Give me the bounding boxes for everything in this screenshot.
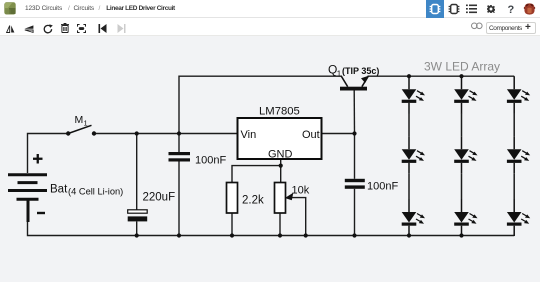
gear icon [487,5,495,13]
wire LED col1 D1-D2 [408,113,410,136]
svg-text:100nF: 100nF [195,155,226,167]
junction LED col2 bottom [459,233,463,237]
svg-text:2.2k: 2.2k [242,195,264,207]
svg-text:GND: GND [268,149,293,161]
junction LED col2 top [459,74,463,78]
svg-text:Out: Out [302,129,320,141]
resistor R1 2.2k [227,183,238,214]
LED D2 (col1 row2) [402,136,425,173]
123D logo [4,2,16,15]
wire pot wiper [288,198,306,236]
transistor Q1 [340,76,369,91]
LED D5 (col2 row2) [454,136,477,173]
svg-text:LM7805: LM7805 [259,106,300,118]
header bar [0,0,540,18]
junction C3 bottom [352,233,356,237]
switch M1 [66,125,96,135]
junction LED col1 bottom [407,233,411,237]
battery Bat [8,175,47,222]
schematic view button (blue) [426,0,444,18]
potentiometer R2 label [292,185,310,197]
wire LED col2 D5-D6 [461,173,463,199]
wire LED col3 D7-D8 [513,113,515,136]
components button [486,22,536,34]
regulator U1 LM7805 [238,118,322,159]
svg-text:(TIP 35c): (TIP 35c) [342,66,379,76]
svg-text:10k: 10k [292,185,310,197]
battery value label [50,184,123,197]
wire Q1 base [353,91,355,134]
wire LED col2 D4-D5 [461,113,463,136]
junction LED col1 top [407,74,411,78]
play icon (disabled) [117,24,126,33]
separator [111,39,112,52]
svg-text:220uF: 220uF [143,192,176,204]
separator [129,39,130,52]
switch M1 label [75,114,88,128]
components list view icon [448,3,460,15]
share icon [471,22,483,30]
junction C1 top [135,131,139,135]
svg-text:3W LED Array: 3W LED Array [424,60,500,74]
wire 100nF C2 branch [178,134,180,236]
svg-text:(4 Cell Li-ion): (4 Cell Li-ion) [68,187,123,197]
svg-text:Bat: Bat [50,184,68,196]
battery plus label [33,154,43,164]
battery minus label [37,212,45,214]
bom list icon [466,4,477,14]
junction C2 top [177,131,181,135]
svg-text:Vin: Vin [241,129,257,141]
wire 220uF branch [136,134,138,236]
regulator title label [259,106,300,118]
trash icon [61,23,69,33]
wire 100nF C3 branch [354,134,356,236]
wire rail switch to regulator [94,133,238,135]
wire 2.2k bottom [231,213,233,236]
svg-text:?: ? [508,4,515,16]
breadcrumb [25,5,62,12]
wire top rail riser [179,76,342,133]
LED D3 (col1 row3) [402,199,425,236]
pin label GND [268,149,293,161]
wire LED col3 D8-D9 [513,173,515,199]
capacitor 220uF label [143,192,176,204]
junction C2 bottom [177,233,181,237]
LED D9 (col3 row3) [507,199,530,236]
wire GND network [232,159,281,183]
capacitor 220uF (polarized) [128,210,148,222]
wire bottom rail [28,222,515,236]
pin label Out [302,129,320,141]
potentiometer wiper arrow [285,193,294,201]
resistor R1 label [242,195,264,207]
junction R1 bottom [230,233,234,237]
LED D8 (col3 row2) [507,136,530,173]
wire top rail right to LEDs [368,75,515,77]
123D app logo (red) [523,3,536,15]
LED array title label [424,60,500,74]
wire 10k bottom [279,213,281,236]
skip to start icon [98,24,107,33]
svg-text:M: M [75,114,84,126]
LED D6 (col2 row3) [454,199,477,236]
zoom to fit icon [77,24,86,33]
capacitor C2 label [195,155,226,167]
wire regulator out to Q1 base node [322,133,355,135]
separator [90,39,91,52]
transistor Q1 label [328,63,379,79]
wire LED col1 D2-D3 [408,173,410,199]
wire battery top lead [28,134,69,174]
svg-text:100nF: 100nF [367,181,398,193]
junction C1 bottom [135,233,139,237]
potentiometer R2 10k [275,183,286,214]
capacitor C2 100nF [169,152,191,162]
flip vertical icon [24,25,34,33]
svg-text:1: 1 [84,119,88,128]
junction Q1 base node [352,131,356,135]
pin label Vin [241,129,257,141]
junction R2 bottom [278,233,282,237]
flip horizontal icon [6,25,15,33]
capacitor C3 100nF [345,179,365,189]
junction GND node [279,164,283,168]
help icon [505,2,517,16]
LED D1 (col1 row1) [402,76,425,113]
secondary toolbar [0,18,540,36]
rotate icon [43,24,53,34]
LED D4 (col2 row1) [454,76,477,113]
LED D7 (col3 row1) [507,76,530,113]
capacitor C3 label [367,181,398,193]
junction wiper bottom [304,233,308,237]
